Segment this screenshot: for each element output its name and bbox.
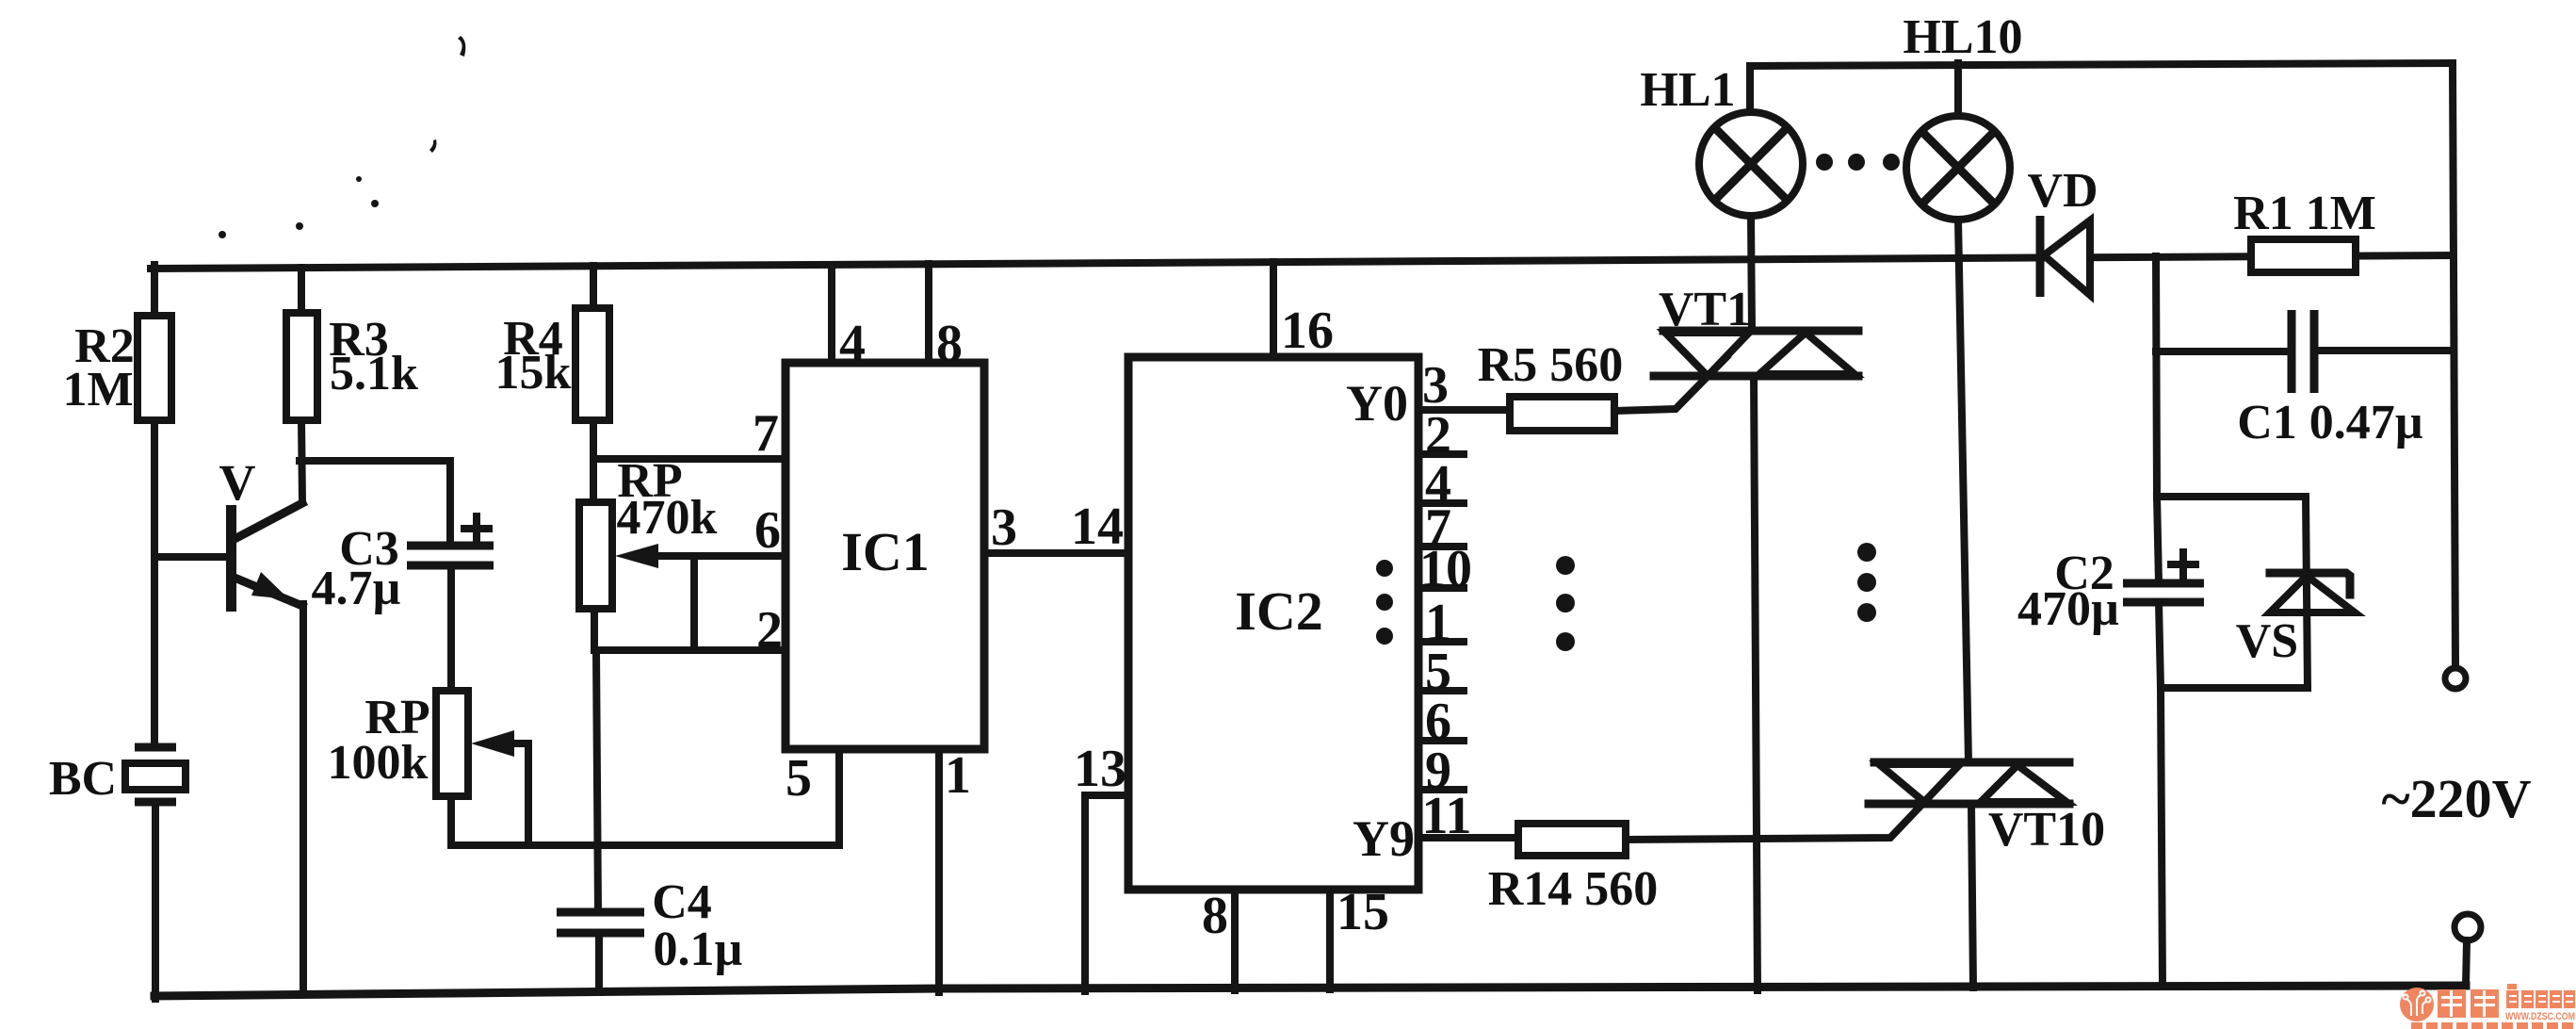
- resistor R4 15k: [495, 266, 609, 420]
- capacitor C3 4.7u: [312, 516, 494, 615]
- svg-text:VD: VD: [2027, 164, 2098, 218]
- capacitor C4 0.1u: [557, 875, 743, 992]
- terminal: lower mains prong: [2454, 914, 2481, 986]
- wire: left vertical R2/base/BC: [154, 265, 155, 999]
- wire: bus junction down to C1/C2: [2156, 256, 2157, 497]
- svg-text:~220V: ~220V: [2381, 768, 2531, 829]
- svg-text:100k: 100k: [328, 736, 429, 790]
- wire: junction pin6 line to pin2 line: [690, 556, 698, 650]
- wire: IC2 pin 11 (Y9 output): [1418, 787, 1518, 845]
- svg-text:WWW.DZSC.COM: WWW.DZSC.COM: [2505, 1011, 2575, 1022]
- terminal: upper mains prong: [2445, 668, 2466, 689]
- potentiometer RP 470k: [579, 454, 718, 609]
- svg-text:VS: VS: [2236, 614, 2298, 668]
- wire: IC1 pin 8: [929, 264, 963, 373]
- svg-text:0.1µ: 0.1µ: [654, 923, 743, 976]
- svg-text:R14 560: R14 560: [1488, 862, 1659, 916]
- svg-text:16: 16: [1281, 302, 1334, 360]
- ellipsis dots middle column: [1857, 543, 1876, 622]
- zener diode VS: [2157, 497, 2355, 688]
- svg-text:Y0: Y0: [1346, 375, 1408, 432]
- svg-text:C4: C4: [652, 875, 712, 929]
- wire: right vertical to upper mains terminal: [2453, 63, 2455, 665]
- wire: IC2 pin 6 stub: [1418, 693, 1464, 751]
- svg-text:7: 7: [753, 404, 779, 463]
- wire: lamp feed line HL1..HL10 top: [1750, 63, 2453, 66]
- wire: R3 bottom to collector node: [301, 420, 302, 502]
- svg-text:1M: 1M: [62, 363, 133, 416]
- triac VT1: [1654, 283, 1858, 376]
- wire: IC2 pin 16: [1273, 262, 1334, 360]
- wire: RP100k bottom to pin5 line: [447, 796, 455, 845]
- wire: R5 to VT1 gate: [1614, 357, 1726, 411]
- svg-text:HL10: HL10: [1903, 10, 2022, 64]
- wire: R4 bottom / IC1 pin7 node: [593, 404, 786, 502]
- svg-text:8: 8: [936, 315, 963, 373]
- piezo sounder BC: [49, 747, 186, 806]
- svg-text:C1 0.47µ: C1 0.47µ: [2237, 396, 2423, 449]
- wire: VS/C2 node down to ground bus: [2161, 688, 2163, 987]
- svg-text:2: 2: [756, 601, 783, 660]
- capacitor C2 470u: [2017, 497, 2204, 688]
- wire: bottom ground bus: [154, 986, 2466, 996]
- svg-text:Y9: Y9: [1353, 810, 1415, 867]
- wire: HL10 down to VT10: [1958, 220, 1968, 762]
- wire: base wire node to transistor: [154, 553, 232, 561]
- wire: IC2 pin 15: [1330, 883, 1389, 989]
- wire: vertical down to C4: [596, 650, 598, 912]
- svg-text:5.1k: 5.1k: [330, 347, 418, 400]
- wire: RP470k bottom / IC1 pin2 node: [594, 601, 786, 660]
- resistor R5 560: [1478, 338, 1624, 431]
- wire: IC2 pin 10 stub: [1418, 540, 1472, 598]
- resistor R3 5.1k: [286, 268, 418, 420]
- svg-text:VT1: VT1: [1659, 283, 1751, 336]
- svg-text:14: 14: [1071, 498, 1124, 556]
- lamp HL1: [1640, 63, 1803, 216]
- svg-text:8: 8: [1202, 887, 1228, 945]
- wire: IC2 pin 7 stub: [1418, 498, 1464, 557]
- lamp HL10: [1903, 10, 2022, 220]
- capacitor C1 0.47u: [2156, 310, 2453, 449]
- wire: IC1 pin 1: [939, 746, 971, 992]
- svg-text:4.7µ: 4.7µ: [312, 562, 401, 615]
- ellipsis dots between lamps: [1816, 154, 1900, 171]
- wire: IC2 pin 3 (Y0 output): [1418, 356, 1510, 415]
- svg-text:R5 560: R5 560: [1478, 338, 1624, 392]
- svg-text:IC1: IC1: [841, 521, 929, 582]
- svg-text:IC2: IC2: [1235, 580, 1322, 642]
- transistor V: [219, 454, 303, 612]
- wire: IC2 pin 9 stub: [1418, 742, 1464, 800]
- svg-text:R1 1M: R1 1M: [2233, 187, 2376, 240]
- svg-text:470k: 470k: [617, 491, 718, 545]
- wire: VT1 anode up to HL1 / cathode down to ground: [1751, 216, 1758, 990]
- svg-text:470µ: 470µ: [2017, 582, 2119, 636]
- wire: IC2 pin 5 stub: [1418, 643, 1464, 701]
- svg-text:15k: 15k: [495, 346, 572, 400]
- label ~220V: [2381, 768, 2531, 829]
- wire: collector node to C3 top: [300, 461, 450, 546]
- wire: VT10 cathode down to ground: [1971, 804, 1973, 988]
- ellipsis dots right of IC2 stubs: [1556, 556, 1575, 651]
- diode VD: [2027, 164, 2098, 297]
- wire: IC2 pin 1 stub: [1418, 594, 1464, 652]
- wire: IC1 pin 4: [832, 265, 866, 373]
- svg-text:HL1: HL1: [1640, 63, 1735, 117]
- potentiometer RP 100k: [328, 691, 528, 845]
- triac VT10: [1869, 762, 2105, 857]
- wire: IC1 pin6 to RP470k wiper: [652, 501, 786, 560]
- svg-text:13: 13: [1074, 740, 1126, 798]
- svg-text:4: 4: [839, 315, 866, 373]
- wire: IC1 pin3 to IC2 pin14: [984, 498, 1128, 557]
- svg-text:V: V: [219, 454, 256, 511]
- wire: IC2 pin 2 stub: [1418, 406, 1464, 465]
- svg-text:1: 1: [945, 746, 971, 805]
- svg-text:15: 15: [1337, 883, 1389, 941]
- wire: top supply bus: [151, 255, 2453, 269]
- watermark logo 维库电子市场网: [2400, 984, 2575, 1029]
- svg-text:BC: BC: [49, 752, 117, 806]
- svg-text:6: 6: [754, 501, 781, 560]
- wire: R14 to VT10 gate: [1626, 799, 1927, 840]
- svg-text:11: 11: [1422, 787, 1472, 845]
- svg-text:10: 10: [1419, 540, 1472, 598]
- resistor R1 1M: [2233, 187, 2376, 272]
- wire: emitter down to ground bus: [300, 604, 307, 994]
- ellipsis dots inside IC2: [1376, 560, 1393, 645]
- resistor R14 560: [1488, 824, 1659, 916]
- svg-text:VT10: VT10: [1988, 803, 2105, 857]
- wire: IC1 pin 5: [451, 749, 839, 845]
- svg-text:5: 5: [786, 749, 812, 808]
- IC IC2: [1128, 357, 1418, 890]
- wire: IC2 pin 8: [1202, 887, 1235, 990]
- wire: IC2 pin 13: [1074, 740, 1128, 991]
- wire: C3 bottom to RP100k: [447, 565, 455, 691]
- wire: IC2 pin 4 stub: [1418, 455, 1464, 514]
- op-amp/timer IC1: [786, 363, 984, 749]
- resistor R2 1M: [62, 316, 171, 420]
- svg-text:3: 3: [991, 498, 1017, 557]
